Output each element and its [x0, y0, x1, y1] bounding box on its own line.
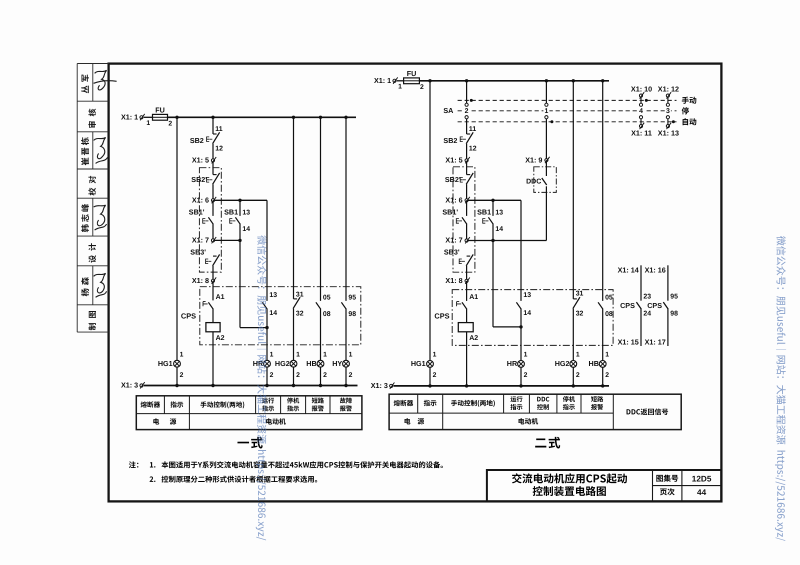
- svg-text:2: 2: [296, 372, 300, 379]
- pushbutton SB2' remote stop NC (circuit 1): [213, 174, 217, 176]
- svg-text:1: 1: [323, 351, 327, 358]
- svg-text:13: 13: [242, 209, 250, 216]
- svg-text:1: 1: [433, 352, 437, 359]
- CPS auxiliary contact 05/08 NO with lamp HB (circuit 2): [602, 81, 604, 301]
- svg-text:X1: 8: X1: 8: [445, 276, 462, 285]
- local control-station box (SB2p/SB3p) circuit 1: [199, 168, 221, 272]
- svg-text:SB2': SB2': [191, 175, 207, 184]
- svg-text:98: 98: [348, 311, 356, 318]
- svg-text:X1: 3: X1: 3: [371, 381, 388, 390]
- svg-text:32: 32: [576, 310, 584, 317]
- svg-text:DDC: DDC: [526, 179, 541, 186]
- svg-text:1: 1: [544, 108, 548, 115]
- svg-text:2: 2: [323, 372, 327, 379]
- svg-text:2: 2: [524, 372, 528, 379]
- svg-text:A2: A2: [469, 335, 478, 342]
- DDC box: [534, 167, 557, 193]
- svg-text:1: 1: [296, 351, 300, 358]
- title column (signature sidebar): [77, 64, 108, 333]
- svg-text:FU: FU: [407, 69, 417, 78]
- svg-text:2: 2: [605, 372, 609, 379]
- watermark center: [256, 235, 267, 540]
- junction nodes on bottom bus (circuit 1): [175, 384, 178, 387]
- wire: X1:6 branch (circuit 2): [468, 199, 521, 201]
- svg-text:31: 31: [576, 291, 584, 298]
- svg-text:HG2: HG2: [275, 359, 290, 368]
- junction nodes on top bus (circuit 2): [428, 79, 431, 82]
- selector SA contact 1 + DDC control branch (circuit 2): [545, 81, 547, 103]
- svg-text:12: 12: [215, 146, 223, 153]
- svg-text:14: 14: [242, 226, 250, 233]
- svg-text:A1: A1: [216, 294, 225, 301]
- CPS device box (circuit 2): [452, 290, 613, 346]
- coil CPS (circuit 2): [466, 309, 468, 323]
- svg-text:X1: 15: X1: 15: [618, 338, 639, 347]
- svg-text:1: 1: [524, 352, 528, 359]
- caption: style two: [535, 437, 560, 449]
- pushbutton SB3' remote stop NC (circuit 1): [213, 255, 217, 257]
- wire/node X1:7 with DDC tie (circuit 2): [467, 240, 547, 242]
- svg-text:1: 1: [146, 120, 150, 127]
- selector switch SA position rows (dashed): [458, 99, 677, 101]
- svg-text:14: 14: [523, 310, 531, 317]
- wire: HG1 branch (circuit 2): [429, 81, 431, 361]
- lamp HB short-circuit alarm (circuit 1): [317, 360, 324, 367]
- svg-text:X1: 6: X1: 6: [445, 196, 462, 205]
- svg-text:08: 08: [605, 311, 613, 318]
- CPS operating contact with actuator, pin A1 (circuit 1): [212, 281, 214, 301]
- svg-text:2: 2: [168, 120, 172, 127]
- pushbutton SB1 start NO, pins 13/14 (circuit 1): [239, 200, 241, 216]
- drawing frame: [109, 64, 722, 502]
- svg-text:X1: 13: X1: 13: [658, 128, 679, 137]
- SA closed-position dot (manual): [470, 99, 473, 102]
- svg-text:SB2: SB2: [443, 136, 457, 145]
- svg-text:CPS: CPS: [647, 301, 662, 310]
- svg-text:13: 13: [269, 292, 277, 299]
- svg-text:X1: 14: X1: 14: [618, 265, 639, 274]
- svg-text:CPS: CPS: [620, 301, 635, 310]
- wire coil to bottom bus (circuit 1): [212, 332, 214, 386]
- svg-text:HG1: HG1: [411, 359, 426, 368]
- svg-text:08: 08: [323, 311, 331, 318]
- closed dot auto row (X1:13 column): [672, 120, 675, 123]
- watermark right: [775, 236, 786, 541]
- lamp HG1 (circuit 2): [427, 361, 434, 368]
- svg-text:X1: 5: X1: 5: [445, 156, 462, 165]
- svg-text:05: 05: [323, 294, 331, 301]
- wire X1:1 to fuse (circuit 2): [397, 80, 404, 82]
- svg-text:SB2': SB2': [445, 175, 461, 184]
- svg-text:X1: 7: X1: 7: [192, 236, 209, 245]
- svg-text:X1: 17: X1: 17: [645, 338, 666, 347]
- svg-text:11: 11: [469, 126, 476, 133]
- sidebar cell: label 审核: [88, 109, 96, 128]
- svg-text:98: 98: [670, 311, 678, 318]
- local control-station box (circuit 2): [453, 167, 475, 272]
- svg-text:X1: 1: X1: 1: [121, 113, 138, 122]
- svg-text:X1: 3: X1: 3: [121, 381, 138, 390]
- wire HG1 to bottom bus: [176, 367, 178, 385]
- SA closed-position dot (auto): [550, 120, 553, 123]
- selector position labels: [682, 97, 697, 104]
- sidebar cell: name 丛军 with signature: [81, 75, 89, 94]
- pushbutton SB2 stop, NC, pins 11/12 (circuit 1): [213, 133, 217, 135]
- svg-text:24: 24: [643, 311, 651, 318]
- sidebar cell: name 韩志峰 with signature: [81, 204, 89, 232]
- svg-text:32: 32: [296, 310, 304, 317]
- main control line (circuit 2): [466, 119, 468, 134]
- svg-text:1: 1: [180, 351, 184, 358]
- svg-text:SB1': SB1': [442, 208, 458, 217]
- svg-text:14: 14: [269, 310, 277, 317]
- wire: HG1 lamp branch (circuit 1): [176, 117, 178, 360]
- CPS auxiliary contact 31/32 NC with lamp HG2 (circuit 1): [293, 117, 295, 299]
- CPS auxiliary contact 05/08 NO with lamp HB (circuit 1): [320, 117, 322, 301]
- wire SB2 to X1:5: [212, 144, 214, 175]
- wire/node X1:7 (circuit 1): [213, 239, 240, 241]
- svg-text:SA: SA: [443, 106, 453, 115]
- wire: top bus L1 (circuit 1): [168, 116, 357, 118]
- svg-text:2: 2: [349, 372, 353, 379]
- lamp HG2 stop-indication (circuit 1): [290, 360, 297, 367]
- svg-text:2: 2: [465, 108, 469, 115]
- function table (circuit 1): [136, 396, 362, 430]
- wire: X1:6 branch to start buttons and CPS 13 (circuit 1): [215, 199, 268, 201]
- title block: [487, 470, 721, 501]
- svg-text:23: 23: [643, 294, 651, 301]
- svg-text:SB1: SB1: [477, 208, 491, 217]
- CPS device box (circuit 1): [200, 287, 361, 345]
- svg-text:1: 1: [576, 352, 580, 359]
- svg-text:HG2: HG2: [555, 359, 570, 368]
- notes: [129, 461, 139, 468]
- pushbutton SB2 stop NC pins 11/12 (circuit 2): [467, 133, 471, 135]
- CPS auxiliary contact 95/98 NO with lamp HY (circuit 1): [345, 117, 347, 301]
- svg-text:CPS: CPS: [434, 312, 449, 321]
- CPS auxiliary contact 13/14 NO with lamp HR (circuit 1): [266, 200, 268, 301]
- junction nodes on top bus (circuit 1): [175, 116, 178, 119]
- svg-text:HB: HB: [589, 359, 599, 368]
- svg-text:X1: 1: X1: 1: [374, 76, 391, 85]
- CPS operating contact pin A1 (circuit 2): [466, 281, 468, 301]
- svg-text:1: 1: [398, 84, 402, 91]
- svg-text:44: 44: [697, 488, 707, 497]
- svg-text:05: 05: [605, 294, 613, 301]
- lamp HR (circuit 2): [518, 361, 525, 368]
- svg-text:12: 12: [469, 146, 477, 153]
- svg-text:SB2: SB2: [190, 136, 204, 145]
- svg-text:X1: 10: X1: 10: [631, 85, 652, 94]
- caption: style one: [237, 437, 262, 449]
- svg-text:HB: HB: [306, 359, 316, 368]
- CPS auxiliary contact 31/32 NC with lamp HG2 (circuit 2): [572, 81, 574, 299]
- svg-text:1: 1: [349, 351, 353, 358]
- svg-text:4: 4: [639, 108, 643, 115]
- svg-text:13: 13: [495, 209, 503, 216]
- wire: top bus L1 (circuit 2): [419, 80, 609, 82]
- svg-text:A1: A1: [469, 294, 478, 301]
- svg-text:SB3': SB3': [190, 248, 206, 257]
- svg-text:HR: HR: [507, 359, 518, 368]
- svg-text:2: 2: [433, 372, 437, 379]
- sidebar cell: label 设计: [88, 243, 95, 262]
- sidebar cell: name 杨森 with signature: [81, 277, 89, 296]
- lamp HG1 (circuit 1): [174, 360, 181, 367]
- pushbutton SB1 NO pins 13/14 (circuit 2): [492, 200, 494, 216]
- svg-text:2: 2: [270, 372, 274, 379]
- svg-text:X1: 6: X1: 6: [192, 196, 209, 205]
- svg-text:X1: 5: X1: 5: [192, 156, 209, 165]
- CPS auxiliary contact 13/14 NO with lamp HR (circuit 2): [520, 200, 522, 301]
- sidebar cell: label 校对: [88, 176, 96, 196]
- closed dot manual row (X1:10 column): [645, 99, 648, 102]
- svg-text:SB1': SB1': [189, 208, 205, 217]
- svg-text:HG1: HG1: [158, 359, 173, 368]
- svg-text:SB3': SB3': [444, 248, 460, 257]
- sidebar cell: name 崔晋栋 with signature: [81, 137, 89, 165]
- svg-text:2: 2: [180, 372, 184, 379]
- lamp HG2 (circuit 2): [570, 361, 577, 368]
- wire: bottom bus N (circuit 2): [394, 385, 610, 387]
- svg-text:95: 95: [348, 294, 356, 301]
- svg-text:X1: 7: X1: 7: [445, 236, 462, 245]
- wire coil to bottom bus (circuit 2): [466, 332, 468, 386]
- pushbutton SB1' NO (circuit 2): [466, 200, 468, 216]
- svg-text:SB1: SB1: [224, 208, 238, 217]
- svg-text:14: 14: [495, 226, 503, 233]
- wire SB2' to X1:6: [212, 184, 214, 200]
- svg-text:HY: HY: [332, 359, 342, 368]
- svg-text:X1: 8: X1: 8: [192, 276, 209, 285]
- svg-text:CPS: CPS: [181, 312, 196, 321]
- svg-text:1: 1: [605, 352, 609, 359]
- sidebar cell: label 制图: [89, 311, 96, 330]
- svg-text:2: 2: [576, 372, 580, 379]
- svg-text:13: 13: [523, 292, 531, 299]
- svg-text:X1: 12: X1: 12: [658, 85, 679, 94]
- lamp HR run-indication (circuit 1): [264, 360, 271, 367]
- svg-text:2: 2: [420, 84, 424, 91]
- coil CPS (circuit 1): [212, 309, 214, 323]
- fuse FU (circuit 2): [404, 78, 420, 84]
- pushbutton SB2' NC (circuit 2): [467, 174, 471, 176]
- wire: SB1 leg to CPS 14 loop (circuit 2): [492, 241, 494, 327]
- svg-text:X1: 11: X1: 11: [631, 128, 652, 137]
- svg-text:X1: 16: X1: 16: [645, 265, 666, 274]
- function table (circuit 2): [389, 394, 681, 429]
- wire: SB1 leg down to CPS 14 loop (circuit 1): [239, 240, 241, 327]
- svg-text:1: 1: [270, 351, 274, 358]
- svg-text:X1: 9: X1: 9: [525, 155, 542, 164]
- wire: main control line upper (circuit 1): [212, 117, 214, 134]
- pushbutton SB1' local start NO (circuit 1): [212, 200, 214, 216]
- lamp HB (circuit 2): [599, 361, 606, 368]
- svg-text:3: 3: [666, 108, 670, 115]
- svg-text:12D5: 12D5: [692, 474, 712, 483]
- wire: bottom bus N (circuit 1): [144, 385, 358, 387]
- junction nodes on bottom bus (circuit 2): [428, 384, 431, 387]
- svg-text:A2: A2: [216, 335, 225, 342]
- lamp HY fault alarm (circuit 1): [343, 360, 350, 367]
- svg-text:FU: FU: [155, 106, 165, 115]
- pushbutton SB3' NC (circuit 2): [467, 255, 471, 257]
- fuse FU (circuit 1): [153, 114, 168, 120]
- svg-text:95: 95: [670, 294, 678, 301]
- wire X1:1 to fuse: [144, 116, 153, 118]
- svg-text:11: 11: [215, 126, 222, 133]
